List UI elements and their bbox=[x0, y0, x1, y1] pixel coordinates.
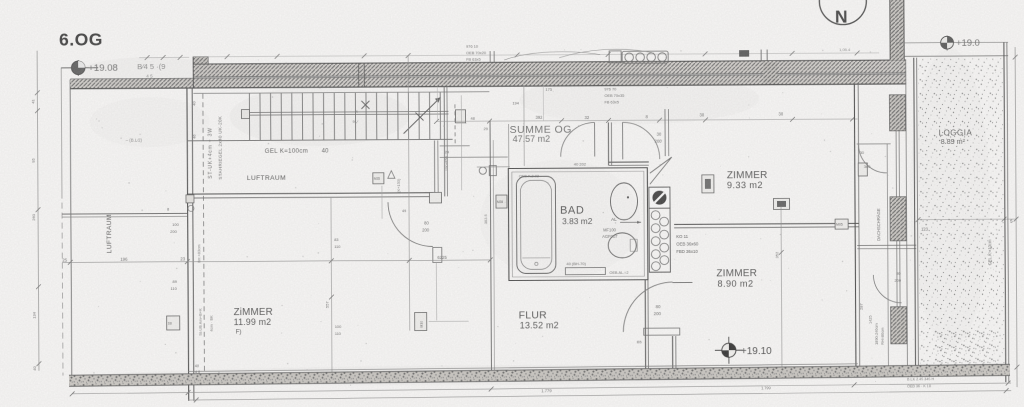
top wall corner stub bbox=[193, 57, 208, 64]
riser stub above wall bbox=[489, 51, 491, 63]
top right corner wall (vertical, hatched) bbox=[890, 0, 904, 60]
strip wall block 1 bbox=[889, 95, 905, 131]
strip window lines bbox=[895, 131, 897, 197]
scan grain overlay bbox=[0, 0, 1, 1]
vertical dim line x781 bbox=[780, 206, 783, 369]
mid dim hline y259 bbox=[62, 260, 490, 262]
loggia dense patch bbox=[932, 328, 992, 361]
stair bottom rail bbox=[187, 139, 453, 141]
tiny eO marker bbox=[479, 167, 486, 174]
door arc D6 bbox=[873, 275, 901, 303]
luftraum parapet line bbox=[62, 212, 187, 215]
left inner vertical line bbox=[60, 68, 63, 193]
strip inner line bbox=[887, 144, 888, 368]
strip hlines y247 bbox=[857, 244, 916, 246]
strip wall block 2 bbox=[890, 197, 906, 241]
vertical dim line x409 bbox=[408, 56, 409, 262]
loggia stipple field bbox=[918, 58, 1005, 365]
top wall lower hatched band bbox=[70, 74, 906, 89]
top dim line above wall bbox=[193, 53, 879, 57]
smudge patches bbox=[89, 97, 209, 148]
door D4 threshold bbox=[644, 328, 680, 335]
top wall left corner vertical edge bbox=[192, 57, 194, 88]
benchmark +19.10 bbox=[715, 349, 743, 351]
wall between right rooms bbox=[674, 223, 859, 224]
vent pipe (dark circle) bbox=[649, 187, 670, 208]
loggia top edge bbox=[904, 55, 1008, 58]
bath shelf bbox=[565, 267, 605, 274]
door leaf D1 bbox=[433, 247, 442, 262]
box B+ left bbox=[167, 316, 180, 330]
washbasin bbox=[610, 183, 637, 220]
door arc D5 bbox=[859, 145, 887, 173]
flur west wall bbox=[490, 121, 491, 374]
leader curve 2 bbox=[559, 49, 654, 58]
extend x409 dim bbox=[408, 262, 410, 331]
bottom dim line 1 bbox=[72, 383, 1011, 394]
box M30 bbox=[415, 312, 427, 330]
north arrow circle bbox=[819, 0, 866, 25]
door arc D4 flur-zimmer bbox=[623, 282, 673, 332]
zimmer west wall below door bbox=[672, 336, 674, 373]
box M35 left bbox=[496, 195, 507, 208]
stair top rail bbox=[193, 92, 489, 94]
hall south wall bbox=[609, 161, 649, 163]
small box right of stairs bbox=[455, 110, 465, 123]
vertical dim line x524 bbox=[523, 86, 525, 166]
installation shaft bbox=[649, 208, 670, 272]
inner floor line bbox=[188, 364, 858, 372]
benchmark +19.08 top right bbox=[896, 41, 1008, 44]
top wall dark pillar patch bbox=[763, 61, 777, 84]
small box above wall bbox=[609, 51, 621, 63]
triangle marker bbox=[388, 171, 395, 179]
dashed railing line bbox=[203, 94, 205, 372]
stair dashed break line bbox=[454, 104, 456, 146]
box M35 stair bbox=[373, 173, 384, 184]
east wall of rooms bbox=[854, 84, 856, 370]
door arc D1 bbox=[388, 202, 433, 247]
loggia left wall bbox=[914, 58, 916, 372]
stair direction arrow bbox=[403, 97, 440, 133]
parapet wall below void bbox=[187, 193, 433, 194]
corner block bbox=[186, 195, 194, 203]
hall dim line bbox=[437, 119, 858, 121]
vertical dim line x331 bbox=[331, 197, 332, 372]
left wall edge line bbox=[70, 80, 72, 378]
stair right edge bbox=[443, 86, 446, 196]
bath outer walls bbox=[508, 168, 648, 281]
left margin vertical dimension line bbox=[37, 51, 39, 371]
scan noise specks bbox=[664, 56, 667, 59]
strip wall block 3 bbox=[891, 307, 907, 344]
right margin dim line bbox=[1015, 47, 1017, 387]
planter circles above wall bbox=[622, 51, 668, 63]
stair mid rails bbox=[249, 111, 448, 112]
box M25 bbox=[773, 198, 789, 209]
top wall upper hatched band bbox=[193, 60, 906, 77]
box M05 bbox=[835, 219, 848, 229]
bottom dim line 2 bbox=[188, 391, 1011, 400]
bath east wall lower run bbox=[644, 280, 647, 373]
witness lines corridor bbox=[542, 86, 544, 121]
loggia dim line bbox=[918, 218, 1016, 221]
door arc D3 room door bbox=[623, 122, 660, 159]
wall between luftraum and rooms bbox=[187, 88, 189, 401]
strip line x906 bbox=[906, 60, 908, 368]
loggia right wall bbox=[1004, 42, 1006, 382]
benchmark +19.08 top left bbox=[61, 67, 98, 69]
bathtub bbox=[516, 176, 556, 273]
strip hline y146 bbox=[857, 143, 891, 145]
wall stub between doors bbox=[607, 122, 609, 165]
toilet bbox=[608, 233, 636, 258]
wall joint lines x359 bbox=[358, 63, 360, 87]
door block at parapet bbox=[429, 192, 441, 203]
stair treads bbox=[248, 94, 250, 140]
bath inner face bbox=[512, 171, 645, 277]
bottom wall sand band bbox=[69, 364, 1010, 386]
door arc D2 bath door bbox=[561, 123, 595, 157]
box M4 bbox=[702, 175, 714, 193]
leader curve 1 bbox=[504, 51, 600, 60]
